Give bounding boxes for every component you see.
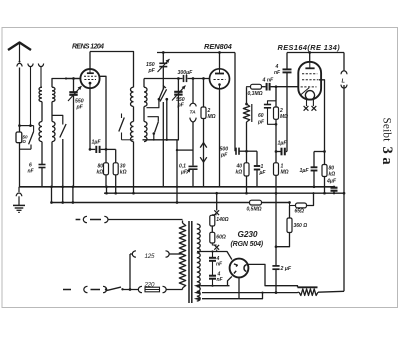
osc coil left — [130, 122, 133, 142]
svg-text:360 Ω: 360 Ω — [294, 223, 308, 229]
resistor 80k cathode — [322, 165, 335, 195]
mains switch — [107, 287, 139, 291]
svg-text:Ω: Ω — [22, 139, 27, 144]
wire RENS cathode — [89, 88, 92, 151]
wire RENS screen — [100, 76, 108, 150]
terminal A1 — [28, 64, 33, 126]
filament pin right — [312, 100, 317, 111]
antenna connector — [17, 60, 22, 132]
tuning capacitor 550pF mid — [172, 79, 186, 140]
svg-text:65Ω: 65Ω — [295, 209, 305, 215]
wire down to 1uF — [275, 124, 278, 153]
riser AB — [105, 185, 108, 194]
resistor 360 ohm — [276, 206, 307, 247]
label Seibt — [381, 118, 393, 143]
wire T2 left to rail — [132, 142, 135, 195]
anode wire 1 — [197, 250, 232, 259]
svg-text:REN804: REN804 — [204, 42, 233, 51]
antenna coil L1 — [39, 87, 42, 101]
ground bus A — [19, 186, 334, 188]
jack TA — [190, 79, 197, 166]
speaker terminal upper — [341, 53, 347, 75]
wire T1 right top to grid wire — [143, 79, 145, 88]
wire REN804 top — [219, 53, 221, 69]
mains stub — [63, 289, 71, 291]
svg-text:RENS 1204: RENS 1204 — [72, 44, 104, 51]
tube G230 — [230, 259, 249, 278]
resistor 40k — [236, 151, 250, 194]
svg-text:MΩ: MΩ — [281, 170, 289, 176]
resistor 2M grid leak — [201, 79, 216, 120]
svg-text:µF: µF — [180, 169, 188, 175]
svg-text:L: L — [342, 79, 346, 85]
wire L4 to bus — [51, 142, 53, 187]
capacitor 1uF cathode — [300, 152, 318, 189]
svg-text:60Ω: 60Ω — [216, 235, 226, 241]
mains connector — [84, 286, 107, 292]
wire A1 join — [18, 124, 33, 127]
rail B — [104, 192, 344, 194]
wire riser to rail C — [176, 140, 179, 204]
label 3a — [379, 147, 395, 166]
capacitor 4nF coupling — [262, 78, 298, 91]
resistor 30k — [113, 149, 126, 194]
svg-text:220: 220 — [144, 281, 155, 288]
svg-text:4 nF: 4 nF — [262, 78, 274, 84]
fuse — [138, 281, 182, 292]
svg-text:140Ω: 140Ω — [216, 217, 228, 223]
potentiometer — [243, 87, 252, 151]
svg-text:TA: TA — [190, 109, 197, 115]
svg-text:kΩ: kΩ — [120, 170, 127, 176]
label L — [342, 79, 346, 85]
tube RENS1204 — [80, 69, 99, 88]
wire osc bottom — [143, 139, 180, 141]
speaker terminal lower — [341, 85, 347, 292]
primary tap 125 — [169, 253, 183, 255]
svg-text:4µF: 4µF — [326, 179, 337, 185]
svg-text:60: 60 — [258, 113, 264, 119]
label REN804 — [204, 42, 233, 51]
filament pin left — [304, 100, 309, 111]
svg-text:kΩ: kΩ — [97, 170, 104, 176]
svg-text:pF: pF — [148, 68, 156, 74]
svg-text:0,5MΩ: 0,5MΩ — [247, 207, 262, 213]
svg-text:nF: nF — [28, 169, 35, 175]
wire L2 to L4 — [51, 102, 53, 122]
capacitor 0.1uF — [179, 164, 198, 187]
wire cathode RC — [314, 152, 325, 165]
wire T1 right to T2 right — [143, 107, 145, 122]
field resistor — [297, 287, 344, 295]
svg-text:1µF: 1µF — [92, 140, 102, 146]
capacitor 500pF — [220, 146, 248, 158]
grid wire REN804 — [144, 77, 210, 80]
switch S1 wave band — [52, 115, 66, 186]
label RENS 1204 — [72, 44, 104, 51]
wire RENS anode to coil — [90, 52, 134, 88]
wire RES164 link — [287, 52, 344, 54]
svg-text:pF: pF — [177, 103, 185, 109]
capacitor 2uF — [272, 193, 291, 292]
grid wire RENS — [65, 77, 81, 79]
resistor 50 ohm (antenna series) — [16, 132, 28, 144]
chassis connector — [76, 216, 183, 222]
riser AC 3 — [72, 185, 75, 203]
resistor 1M — [274, 152, 289, 195]
wire link right end — [234, 53, 236, 152]
tube RES164 — [298, 62, 321, 100]
secondary tap arrows — [194, 284, 200, 301]
capacitor 60pF — [257, 87, 276, 126]
capacitor 300pF — [178, 70, 194, 82]
svg-text:3 a: 3 a — [379, 147, 395, 166]
svg-text:µF: µF — [259, 170, 267, 176]
svg-text:1µF: 1µF — [278, 141, 288, 147]
capacitor 4nF a — [209, 252, 223, 276]
capacitor 6nF — [28, 142, 46, 187]
tap 125 branch — [130, 251, 169, 290]
capacitor 1uF grid — [276, 141, 287, 156]
riser AC 1 — [50, 185, 53, 203]
svg-text:nF: nF — [274, 70, 281, 76]
switch S4 — [160, 89, 167, 187]
svg-text:125: 125 — [145, 253, 155, 260]
capacitor 4nF top — [274, 53, 292, 152]
transformer secondary — [197, 224, 200, 301]
wire T1 left to T2 left — [133, 107, 135, 122]
svg-text:(RGN 504): (RGN 504) — [231, 241, 264, 248]
svg-text:pF: pF — [257, 120, 265, 126]
svg-text:nF: nF — [216, 262, 223, 268]
svg-text:kΩ: kΩ — [236, 170, 243, 176]
svg-text:1µF: 1µF — [300, 168, 310, 174]
rail C — [52, 202, 290, 204]
secondary tap wires — [197, 252, 202, 299]
terminal A2 — [38, 64, 43, 88]
wire RES164 anode side — [319, 80, 326, 153]
capacitor 4uF — [326, 179, 338, 195]
svg-text:0,3MΩ: 0,3MΩ — [248, 91, 263, 97]
wire RES164 top cap — [308, 51, 311, 61]
wire heater taps — [201, 285, 230, 287]
svg-text:nF: nF — [217, 277, 224, 283]
heater chain bottom x — [214, 245, 219, 252]
svg-text:pF: pF — [220, 152, 228, 158]
resistor 2M — [274, 87, 289, 126]
wire top link — [157, 51, 235, 54]
coil L4 — [52, 122, 55, 142]
cathode output wire — [248, 264, 297, 287]
IF coil left top — [131, 87, 134, 106]
wire RENS top cap — [89, 52, 91, 69]
svg-text:pF: pF — [76, 104, 84, 110]
svg-text:Seibt: Seibt — [381, 118, 393, 143]
wire jog to TA line — [176, 149, 193, 151]
svg-text:kΩ: kΩ — [329, 172, 336, 178]
wire antenna to bus — [19, 143, 21, 187]
wire REN804 cathode — [219, 89, 221, 187]
wire bottom 2 — [202, 298, 239, 300]
resistor 80k — [97, 149, 109, 186]
svg-text:G230: G230 — [238, 229, 258, 239]
switch S5 — [119, 114, 134, 140]
gang arrow — [200, 119, 207, 187]
IF coil right top — [144, 87, 147, 106]
secondary coil L2 — [52, 87, 55, 101]
label RES164 — [278, 43, 341, 52]
heater chain top — [214, 192, 219, 215]
wire L1 to L3 — [41, 102, 43, 122]
wire bottom 1 — [202, 291, 298, 294]
svg-text:MΩ: MΩ — [208, 114, 216, 120]
resistor 65 ohm — [288, 192, 314, 214]
tuning capacitor 550pF left — [68, 77, 84, 187]
osc coil right — [144, 122, 147, 142]
transformer primary — [179, 221, 185, 290]
ground symbol — [13, 187, 25, 213]
wire L2 top to grid wire — [52, 79, 80, 88]
tube REN804 — [210, 69, 230, 89]
resistor 60 ohm — [210, 226, 226, 245]
resistor 0.5M — [247, 200, 262, 212]
capacitor 1uF (RENS) — [90, 140, 116, 154]
label G230 — [231, 229, 264, 248]
transformer core — [189, 221, 192, 303]
switch S2 — [147, 85, 167, 108]
anode wire 2 — [228, 276, 232, 285]
resistor 140 ohm — [210, 215, 229, 226]
switch across antenna resistor — [20, 126, 34, 150]
svg-text:300µF: 300µF — [178, 70, 194, 76]
capacitor 4nF b — [209, 271, 224, 287]
svg-text:RES164(RE 134): RES164(RE 134) — [278, 43, 341, 52]
switch S3 — [148, 117, 159, 140]
capacitor 150pF — [146, 53, 170, 90]
svg-text:2 µF: 2 µF — [280, 266, 292, 272]
riser AC 2 — [61, 185, 64, 203]
filament return — [239, 277, 264, 298]
resistor 0.3M — [247, 84, 263, 97]
antenna — [8, 43, 31, 61]
capacitor 1uF AF — [247, 151, 267, 187]
coil L3 — [39, 122, 42, 142]
node S2 drop — [165, 98, 168, 141]
